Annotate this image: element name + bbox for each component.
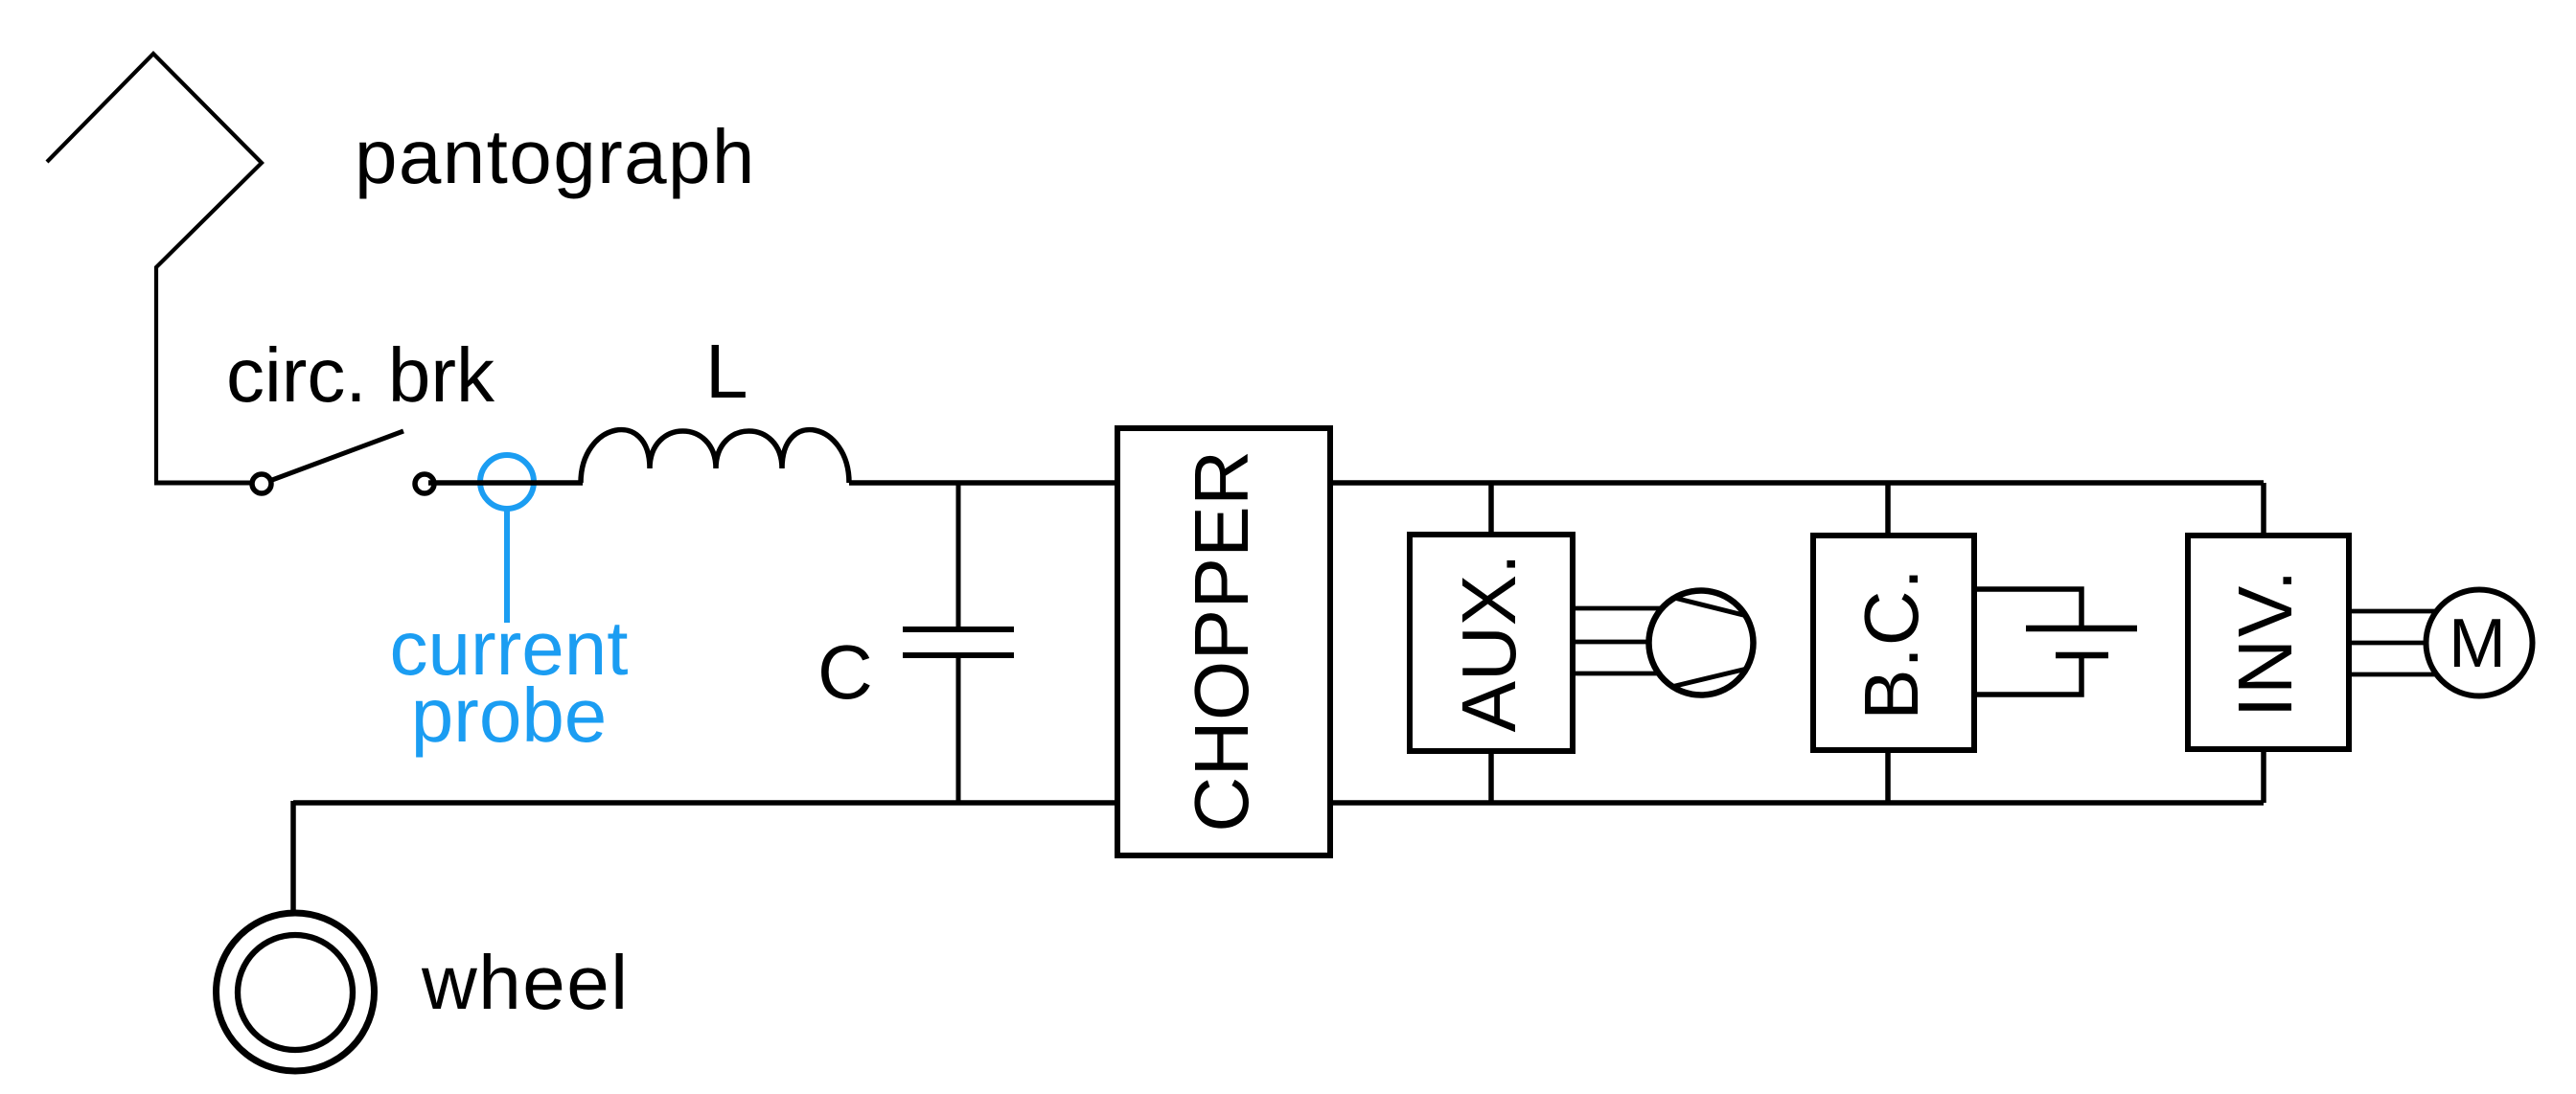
svg-text:circ. brk: circ. brk bbox=[226, 332, 495, 418]
svg-text:B.C.: B.C. bbox=[1849, 567, 1934, 720]
svg-text:INV.: INV. bbox=[2222, 568, 2308, 718]
svg-text:pantograph: pantograph bbox=[355, 114, 756, 199]
svg-text:wheel: wheel bbox=[421, 940, 630, 1025]
svg-text:C: C bbox=[817, 629, 873, 715]
svg-text:L: L bbox=[705, 329, 748, 414]
svg-text:M: M bbox=[2449, 605, 2506, 682]
svg-text:AUX.: AUX. bbox=[1446, 554, 1531, 733]
svg-text:probe: probe bbox=[411, 672, 608, 758]
svg-text:CHOPPER: CHOPPER bbox=[1179, 449, 1264, 832]
